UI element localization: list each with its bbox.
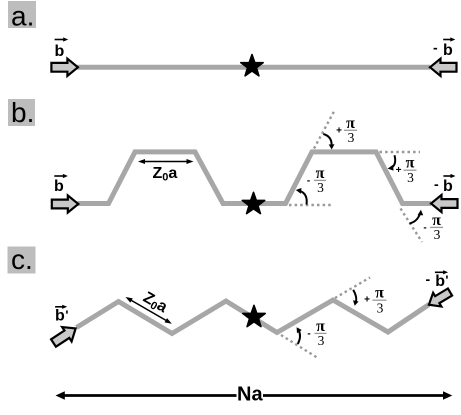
panel label a. xyxy=(8,1,36,28)
svg-text:+: + xyxy=(336,125,342,136)
angle arc at upper-left kink (panel b) xyxy=(323,134,334,150)
dotted continuation at lower-left kink (panel b) xyxy=(289,204,331,206)
dotted continuation at lower-right kink (panel b) xyxy=(401,209,423,243)
svg-text:-: - xyxy=(423,222,426,233)
dotted continuation at upper-left kink (panel b) xyxy=(314,111,335,149)
svg-text:π: π xyxy=(375,285,384,302)
wire: panel b kinked dislocation line xyxy=(78,152,432,204)
dotted continuation at upper-right kink (panel b) xyxy=(380,151,421,153)
block arrow -b' (panel c right, rotated) xyxy=(425,285,454,311)
angle arc at valley kink (panel c) xyxy=(297,327,302,344)
svg-text:-: - xyxy=(307,328,310,339)
node b' vector label (panel c) xyxy=(55,305,68,325)
svg-text:b: b xyxy=(443,42,453,59)
angle arc at peak kink (panel c) xyxy=(353,290,359,306)
dimension arrow Z0a (panel b) xyxy=(138,159,194,183)
wire: panel c zigzag dislocation line xyxy=(77,300,430,334)
svg-text:3: 3 xyxy=(377,300,384,315)
svg-text:3: 3 xyxy=(434,227,441,242)
svg-text:b: b xyxy=(435,273,445,290)
star (panel b center) xyxy=(242,192,264,213)
block arrow b (panel b left) xyxy=(52,195,79,212)
svg-text:b: b xyxy=(55,307,65,324)
block arrow -b (panel b right) xyxy=(431,195,458,212)
node -b vector label (panel b) xyxy=(434,174,456,195)
svg-text:Na: Na xyxy=(237,384,263,406)
block arrow b (panel a left) xyxy=(51,59,78,76)
svg-text:3: 3 xyxy=(407,170,414,185)
node b vector label (panel b) xyxy=(54,174,68,195)
star (panel a center) xyxy=(241,55,263,76)
dimension arrow Z0a (panel c, rotated) xyxy=(124,281,181,326)
angle arc at lower-left kink (panel b) xyxy=(296,188,307,205)
svg-text:3: 3 xyxy=(317,180,324,195)
node b vector label (panel a) xyxy=(55,37,69,59)
svg-text:+: + xyxy=(396,165,402,176)
wire: panel a dislocation line xyxy=(77,65,430,70)
panel label c. xyxy=(8,247,36,274)
svg-text:a.: a. xyxy=(11,1,34,32)
block arrow -b (panel a right) xyxy=(430,59,457,76)
dotted continuation at valley kink (panel c) xyxy=(281,335,317,358)
svg-text:b: b xyxy=(54,178,64,195)
svg-text:+: + xyxy=(364,295,370,306)
svg-text:b: b xyxy=(55,43,65,60)
node -b vector label (panel a) xyxy=(433,37,455,58)
svg-text:3: 3 xyxy=(318,333,325,348)
svg-text:': ' xyxy=(65,308,68,323)
label -pi/3 lower-right (panel b) xyxy=(423,212,443,242)
svg-text:3: 3 xyxy=(348,130,355,145)
label +pi/3 (panel c) xyxy=(364,285,386,316)
angle arc at lower-right kink (panel b) xyxy=(410,210,424,224)
svg-text:b: b xyxy=(443,178,453,195)
node -b' vector label (panel c) xyxy=(426,270,449,290)
dotted continuation at peak kink (panel c) xyxy=(335,278,370,299)
label -pi/3 lower-left (panel b) xyxy=(307,165,326,195)
block arrow b' (panel c left, rotated) xyxy=(49,321,81,350)
svg-text:b.: b. xyxy=(11,97,34,128)
svg-text:c.: c. xyxy=(11,244,33,275)
label -pi/3 (panel c) xyxy=(307,318,326,348)
svg-text:-: - xyxy=(434,176,439,192)
star (panel c center) xyxy=(243,305,265,326)
svg-text:-: - xyxy=(307,175,310,186)
label +pi/3 upper-left (panel b) xyxy=(336,115,357,145)
svg-text:-: - xyxy=(426,271,431,287)
dimension arrow Na (bottom) xyxy=(56,384,453,406)
panel label b. xyxy=(8,99,35,126)
label +pi/3 upper-right (panel b) xyxy=(396,155,417,185)
angle arc at upper-right kink (panel b) xyxy=(388,155,396,170)
svg-text:': ' xyxy=(445,273,448,288)
svg-text:-: - xyxy=(433,40,438,56)
